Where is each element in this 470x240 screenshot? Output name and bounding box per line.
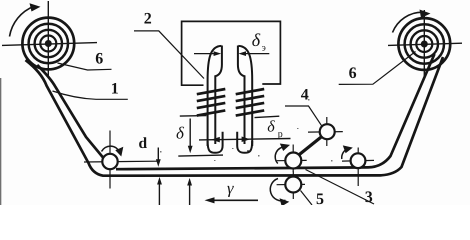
svg-text:2: 2: [144, 10, 152, 27]
roller 3: crosshair: [342, 148, 374, 187]
svg-text:5: 5: [316, 191, 324, 205]
bend roller (left): circle: [102, 154, 117, 169]
roller 4: crosshair: [308, 117, 343, 146]
pulley 6 (left): rings: [22, 18, 74, 70]
d dimension arrow upper: [157, 148, 159, 163]
delta dimension arrow upper: [189, 119, 191, 149]
coil winding right leg: [236, 89, 265, 116]
label 5 leader: [301, 191, 313, 206]
scan speckles: [160, 99, 333, 162]
pulley 6 (left): crosshair: [2, 1, 97, 78]
short ref line y=155.5: [178, 155, 223, 156]
ref line left of pole (y=116): [180, 115, 207, 118]
left pole bottom cap: [208, 132, 223, 153]
belt 1: outer edge (left diagonal, bottom run, right diagonal): [26, 57, 444, 176]
right pole outer wall + top arc: [238, 46, 252, 146]
pulley 6 (right): crosshair: [388, 10, 462, 79]
delta dimension arrow lower: [189, 182, 191, 205]
belt 1: inner edge left diagonal: [37, 65, 103, 158]
scan artifact left edge: [0, 78, 2, 205]
coil winding left leg: [197, 89, 226, 116]
roller A: rotation arrow: [275, 147, 286, 164]
roller A (above belt): crosshair: [277, 145, 307, 173]
svg-text:1: 1: [111, 80, 119, 97]
d dimension arrow lower: [158, 181, 160, 205]
label 4 leader: [285, 106, 322, 126]
right pole bottom cap: [237, 132, 252, 153]
roller B (below belt, 5): crosshair: [277, 172, 305, 200]
svg-text:δ: δ: [267, 119, 275, 136]
belt 1: inner edge top run + right diagonal: [116, 54, 435, 169]
svg-text:6: 6: [95, 50, 103, 67]
roller A: circle: [285, 153, 301, 169]
svg-text:δ: δ: [176, 124, 185, 143]
right pole gap edge + inner wall: [238, 46, 245, 145]
left pole outer wall + top arc: [208, 46, 222, 146]
svg-text:р: р: [278, 129, 283, 140]
svg-text:э: э: [262, 44, 266, 54]
electromagnet box 2: [182, 21, 281, 85]
svg-text:d: d: [139, 135, 148, 152]
lever link roller4 - roller A: [299, 137, 322, 155]
roller 3: rotation arrow: [342, 148, 349, 159]
svg-text:γ: γ: [227, 179, 234, 198]
svg-text:6: 6: [349, 65, 357, 82]
long pole-tip line y=139 with outward arrowheads: [199, 139, 291, 140]
pulley 6 (left): rotation arrow: [10, 6, 35, 36]
left pole gap edge + inner wall: [215, 46, 222, 145]
label 3 leader: [306, 170, 375, 205]
svg-text:3: 3: [365, 189, 373, 205]
svg-text:δ: δ: [252, 30, 261, 50]
delta_e gap dimension arrows: [194, 53, 218, 55]
svg-text:4: 4: [301, 87, 309, 104]
bend roller (left): rotation arrow: [102, 146, 120, 152]
roller B: rotation arrow: [270, 179, 285, 201]
roller 4: circle: [320, 124, 335, 139]
roller 3: circle: [351, 153, 366, 168]
bend roller (left): crosshair: [84, 131, 158, 189]
ref line above delta_p (y=117): [255, 116, 280, 117]
pulley 6 (right): rings: [398, 18, 450, 70]
pulley 6 (right): rotation arrow: [393, 12, 424, 32]
roller B: circle: [285, 177, 301, 193]
